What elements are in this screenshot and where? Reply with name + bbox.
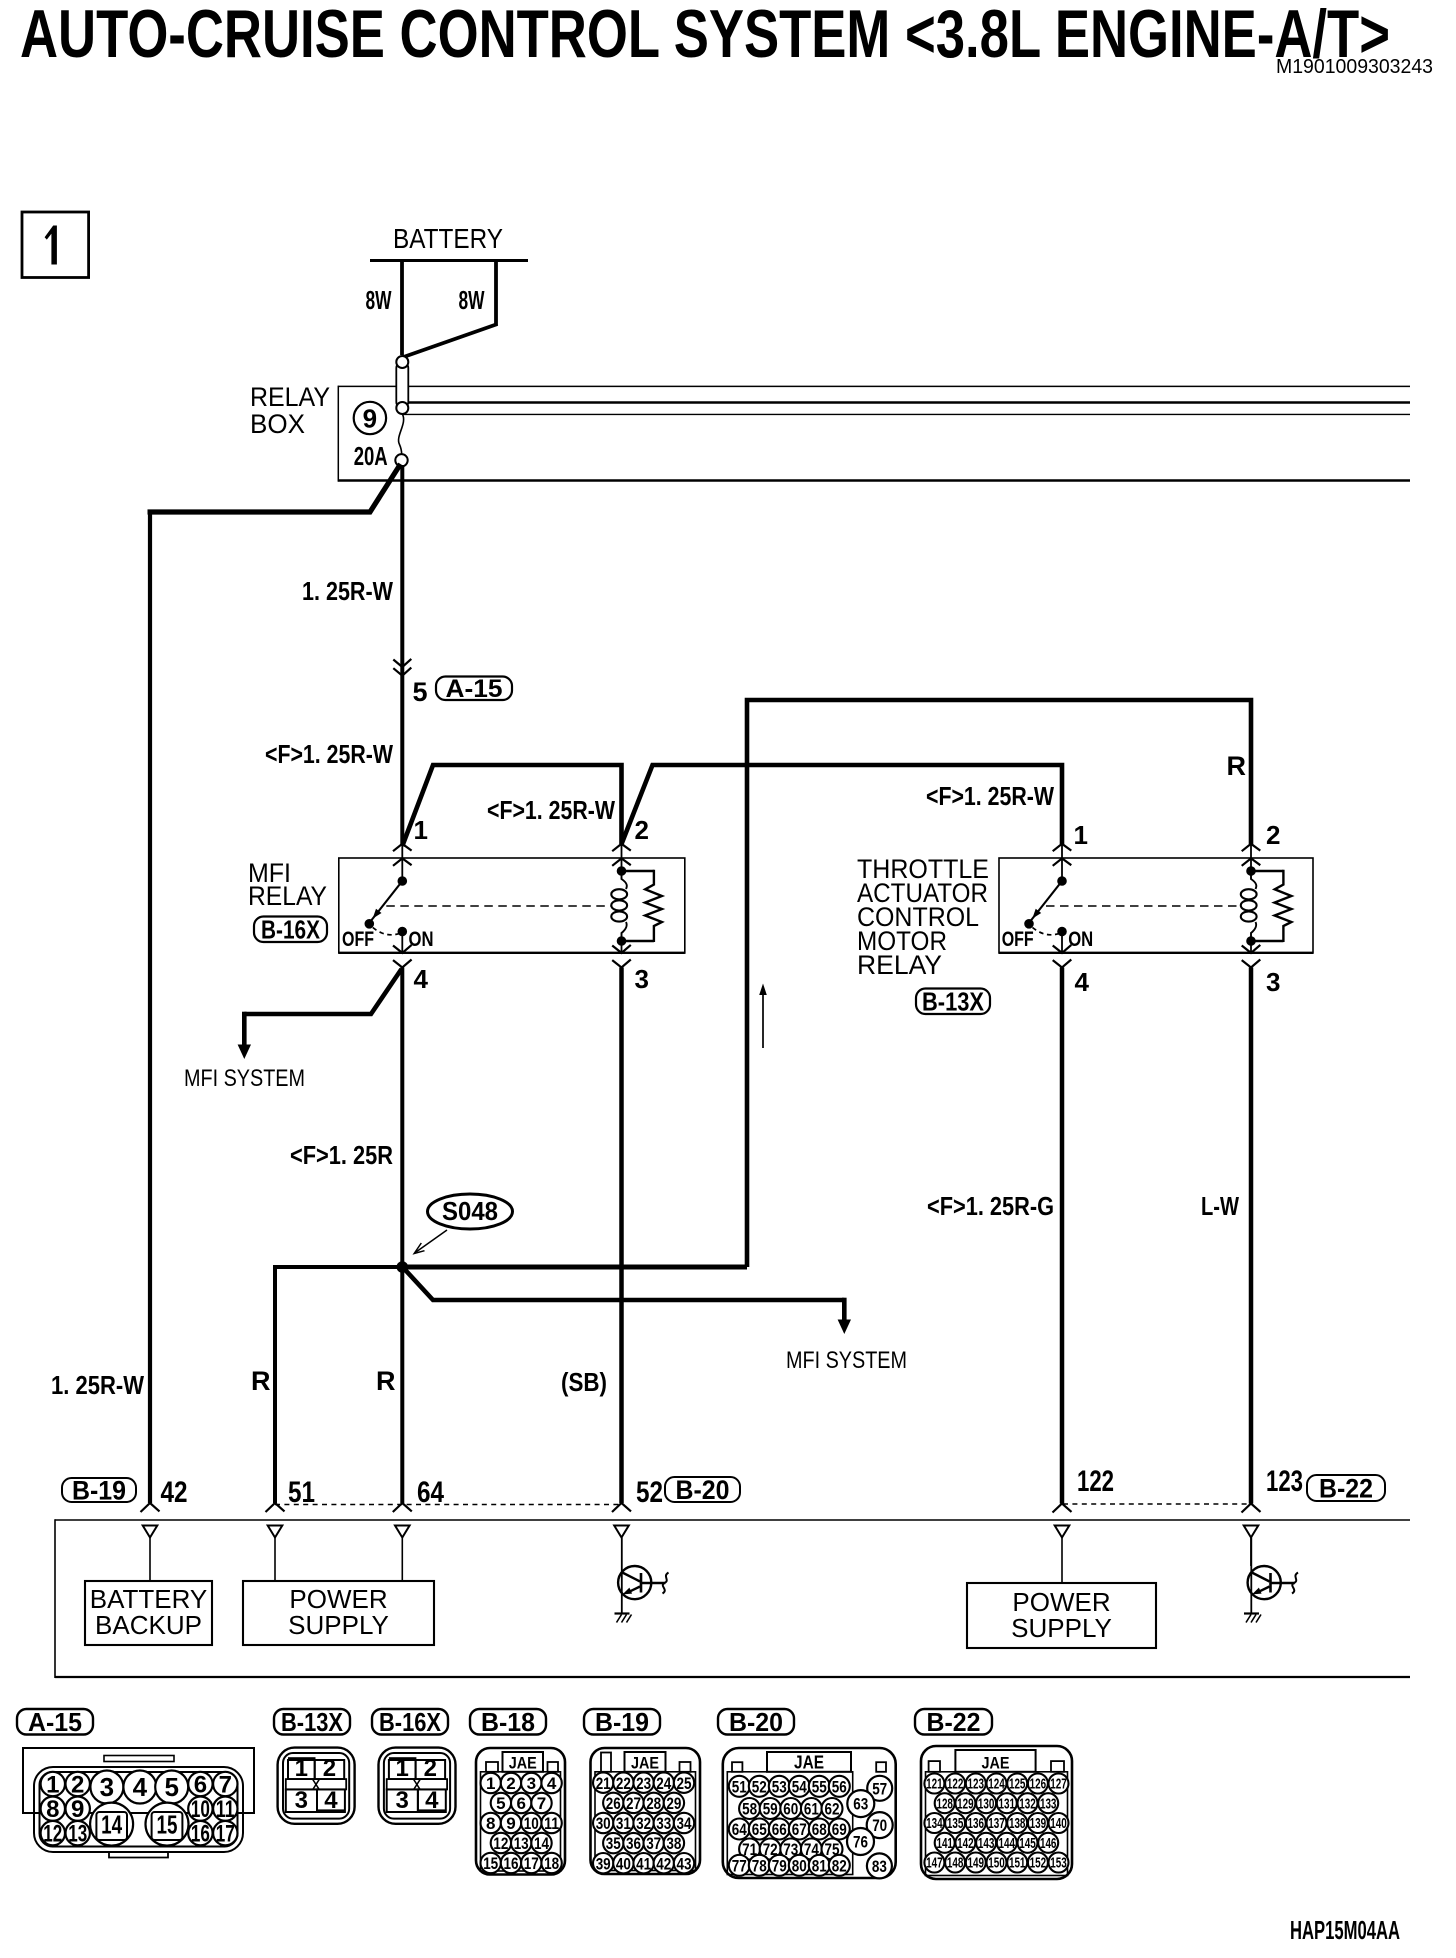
svg-text:4: 4 (425, 1787, 439, 1814)
svg-text:14: 14 (101, 1809, 122, 1839)
svg-text:B-20: B-20 (729, 1707, 783, 1737)
svg-text:R: R (1227, 751, 1247, 781)
svg-text:26: 26 (606, 1794, 621, 1813)
svg-text:127: 127 (1050, 1777, 1067, 1793)
svg-text:4: 4 (414, 964, 429, 994)
svg-text:3: 3 (396, 1787, 409, 1814)
svg-text:56: 56 (832, 1777, 847, 1796)
svg-text:3: 3 (295, 1787, 308, 1814)
svg-text:137: 137 (988, 1816, 1005, 1832)
svg-text:2: 2 (424, 1755, 437, 1782)
svg-text:4: 4 (1075, 967, 1090, 997)
svg-text:BACKUP: BACKUP (95, 1610, 202, 1640)
svg-text:54: 54 (792, 1777, 807, 1796)
svg-text:20A: 20A (354, 441, 388, 471)
svg-text:(SB): (SB) (561, 1367, 607, 1397)
svg-text:23: 23 (636, 1774, 651, 1793)
svg-text:150: 150 (988, 1856, 1005, 1872)
svg-text:79: 79 (772, 1856, 787, 1875)
svg-text:S048: S048 (442, 1196, 498, 1226)
svg-text:32: 32 (636, 1814, 651, 1833)
svg-text:139: 139 (1030, 1816, 1047, 1832)
svg-text:2: 2 (635, 815, 649, 845)
svg-text:OFF: OFF (1002, 928, 1034, 951)
svg-text:SUPPLY: SUPPLY (1011, 1613, 1112, 1643)
svg-text:5: 5 (496, 1794, 505, 1813)
svg-text:R: R (376, 1366, 396, 1396)
svg-text:30: 30 (596, 1814, 611, 1833)
svg-text:3: 3 (527, 1774, 536, 1793)
svg-text:AUTO-CRUISE CONTROL SYSTEM <3.: AUTO-CRUISE CONTROL SYSTEM <3.8L ENGINE-… (20, 0, 1390, 72)
svg-text:6: 6 (194, 1772, 207, 1799)
svg-text:51: 51 (288, 1476, 315, 1509)
svg-text:125: 125 (1009, 1777, 1026, 1793)
svg-text:2: 2 (506, 1774, 515, 1793)
svg-text:129: 129 (957, 1796, 974, 1812)
svg-text:ON: ON (409, 928, 434, 951)
svg-text:1: 1 (414, 815, 428, 845)
svg-text:40: 40 (616, 1854, 631, 1873)
svg-text:33: 33 (656, 1814, 671, 1833)
svg-text:51: 51 (732, 1777, 747, 1796)
svg-text:JAE: JAE (631, 1754, 659, 1773)
svg-text:BOX: BOX (250, 409, 305, 439)
svg-text:153: 153 (1050, 1856, 1067, 1872)
svg-text:15: 15 (157, 1809, 178, 1839)
svg-text:31: 31 (616, 1814, 631, 1833)
svg-text:8W: 8W (366, 285, 392, 315)
svg-text:<F>1. 25R-W: <F>1. 25R-W (265, 739, 393, 769)
svg-text:25: 25 (677, 1774, 692, 1793)
svg-text:55: 55 (812, 1777, 827, 1796)
svg-text:11: 11 (544, 1814, 559, 1833)
svg-text:123: 123 (1266, 1465, 1303, 1498)
svg-text:68: 68 (812, 1820, 827, 1839)
svg-text:81: 81 (812, 1856, 827, 1875)
svg-text:L-W: L-W (1201, 1191, 1239, 1221)
svg-text:1: 1 (1074, 820, 1088, 850)
svg-text:15: 15 (483, 1854, 498, 1873)
svg-text:64: 64 (732, 1820, 747, 1839)
svg-text:136: 136 (968, 1816, 985, 1832)
svg-text:28: 28 (646, 1794, 661, 1813)
svg-text:B-13X: B-13X (922, 986, 985, 1016)
svg-text:62: 62 (825, 1800, 840, 1819)
svg-text:3: 3 (635, 964, 649, 994)
svg-text:146: 146 (1040, 1836, 1057, 1852)
svg-text:126: 126 (1030, 1777, 1047, 1793)
svg-text:52: 52 (752, 1777, 767, 1796)
svg-text:34: 34 (677, 1814, 692, 1833)
svg-text:B-16X: B-16X (261, 914, 321, 944)
svg-text:17: 17 (216, 1821, 235, 1848)
svg-text:134: 134 (926, 1816, 943, 1832)
svg-text:63: 63 (853, 1795, 868, 1814)
svg-text:16: 16 (504, 1854, 519, 1873)
svg-text:121: 121 (926, 1777, 943, 1793)
svg-text:43: 43 (677, 1854, 692, 1873)
svg-text:<F>1. 25R-W: <F>1. 25R-W (926, 781, 1054, 811)
svg-text:M1901009303243: M1901009303243 (1276, 56, 1433, 78)
svg-text:42: 42 (161, 1476, 188, 1509)
svg-text:151: 151 (1009, 1856, 1026, 1872)
svg-text:18: 18 (544, 1854, 559, 1873)
svg-text:9: 9 (506, 1814, 515, 1833)
svg-text:JAE: JAE (794, 1753, 824, 1773)
svg-text:13: 13 (514, 1834, 529, 1853)
svg-text:B-20: B-20 (676, 1475, 730, 1505)
svg-text:83: 83 (872, 1857, 887, 1876)
svg-text:80: 80 (792, 1856, 807, 1875)
svg-text:16: 16 (191, 1821, 210, 1848)
svg-text:JAE: JAE (982, 1754, 1010, 1773)
svg-text:149: 149 (968, 1856, 985, 1872)
svg-text:1. 25R-W: 1. 25R-W (302, 576, 393, 606)
svg-text:67: 67 (792, 1820, 807, 1839)
svg-text:2: 2 (1266, 820, 1280, 850)
svg-text:35: 35 (606, 1834, 621, 1853)
svg-text:132: 132 (1019, 1796, 1036, 1812)
svg-text:148: 148 (947, 1856, 964, 1872)
svg-text:1. 25R-W: 1. 25R-W (51, 1370, 144, 1400)
svg-text:122: 122 (1077, 1465, 1114, 1498)
svg-text:14: 14 (534, 1834, 549, 1853)
svg-text:37: 37 (646, 1834, 661, 1853)
svg-text:17: 17 (524, 1854, 539, 1873)
svg-text:76: 76 (853, 1833, 868, 1852)
svg-text:133: 133 (1040, 1796, 1057, 1812)
svg-text:128: 128 (936, 1796, 953, 1812)
svg-text:B-18: B-18 (481, 1707, 535, 1737)
svg-text:82: 82 (832, 1856, 847, 1875)
svg-text:B-13X: B-13X (281, 1707, 344, 1737)
svg-text:38: 38 (666, 1834, 681, 1853)
svg-text:JAE: JAE (509, 1754, 537, 1773)
svg-text:60: 60 (783, 1800, 798, 1819)
svg-text:MFI SYSTEM: MFI SYSTEM (184, 1065, 305, 1092)
svg-text:21: 21 (596, 1774, 611, 1793)
svg-text:7: 7 (219, 1772, 232, 1799)
svg-text:135: 135 (947, 1816, 964, 1832)
svg-text:131: 131 (999, 1796, 1016, 1812)
svg-text:B-19: B-19 (595, 1707, 649, 1737)
svg-text:<F>1. 25R: <F>1. 25R (290, 1140, 393, 1170)
svg-text:11: 11 (216, 1796, 235, 1823)
svg-text:65: 65 (752, 1820, 767, 1839)
svg-text:B-16X: B-16X (379, 1707, 442, 1737)
svg-text:152: 152 (1030, 1856, 1047, 1872)
svg-text:8: 8 (486, 1814, 495, 1833)
svg-text:3: 3 (1266, 967, 1280, 997)
svg-text:R: R (251, 1366, 271, 1396)
svg-text:64: 64 (417, 1476, 444, 1509)
svg-text:9: 9 (71, 1796, 84, 1823)
svg-text:2: 2 (323, 1755, 336, 1782)
svg-text:39: 39 (596, 1854, 611, 1873)
svg-text:A-15: A-15 (446, 675, 503, 703)
svg-text:142: 142 (957, 1836, 974, 1852)
svg-text:69: 69 (832, 1820, 847, 1839)
svg-text:1: 1 (295, 1755, 308, 1782)
svg-text:52: 52 (636, 1476, 663, 1509)
svg-text:36: 36 (626, 1834, 641, 1853)
svg-text:27: 27 (626, 1794, 641, 1813)
svg-text:1: 1 (486, 1774, 495, 1793)
svg-text:144: 144 (999, 1836, 1016, 1852)
svg-text:10: 10 (524, 1814, 539, 1833)
svg-text:RELAY: RELAY (857, 950, 942, 980)
svg-text:1: 1 (46, 1772, 59, 1799)
svg-text:HAP15M04AA: HAP15M04AA (1290, 1915, 1400, 1945)
svg-text:57: 57 (872, 1779, 887, 1798)
svg-text:MFI SYSTEM: MFI SYSTEM (786, 1347, 907, 1374)
svg-text:12: 12 (43, 1821, 62, 1848)
svg-text:7: 7 (537, 1794, 546, 1813)
svg-text:8W: 8W (459, 285, 485, 315)
svg-text:RELAY: RELAY (250, 382, 330, 412)
svg-text:RELAY: RELAY (248, 881, 327, 911)
svg-text:3: 3 (100, 1772, 114, 1802)
svg-text:130: 130 (978, 1796, 995, 1812)
svg-text:77: 77 (732, 1856, 747, 1875)
svg-text:<F>1. 25R-G: <F>1. 25R-G (927, 1191, 1054, 1221)
svg-text:138: 138 (1009, 1816, 1026, 1832)
svg-text:13: 13 (68, 1821, 87, 1848)
svg-text:B-22: B-22 (1319, 1473, 1373, 1503)
svg-text:42: 42 (656, 1854, 671, 1873)
svg-text:ON: ON (1068, 928, 1093, 951)
svg-text:2: 2 (71, 1772, 84, 1799)
svg-text:4: 4 (547, 1774, 557, 1793)
svg-text:4: 4 (324, 1787, 338, 1814)
svg-text:6: 6 (516, 1794, 525, 1813)
svg-text:5: 5 (164, 1772, 178, 1802)
svg-text:9: 9 (363, 404, 377, 434)
svg-text:12: 12 (493, 1834, 508, 1853)
svg-text:B-19: B-19 (72, 1475, 126, 1505)
svg-text:4: 4 (133, 1772, 148, 1802)
svg-text:58: 58 (742, 1800, 757, 1819)
svg-text:124: 124 (988, 1777, 1005, 1793)
svg-text:143: 143 (978, 1836, 995, 1852)
svg-text:141: 141 (936, 1836, 953, 1852)
svg-text:8: 8 (46, 1796, 59, 1823)
svg-text:OFF: OFF (342, 928, 374, 951)
svg-text:B-22: B-22 (927, 1707, 981, 1737)
svg-text:123: 123 (968, 1777, 985, 1793)
svg-text:53: 53 (772, 1777, 787, 1796)
svg-text:66: 66 (772, 1820, 787, 1839)
svg-text:24: 24 (656, 1774, 671, 1793)
svg-text:SUPPLY: SUPPLY (288, 1610, 389, 1640)
svg-text:70: 70 (872, 1816, 887, 1835)
svg-text:5: 5 (413, 677, 428, 707)
svg-text:122: 122 (947, 1777, 964, 1793)
svg-text:61: 61 (804, 1800, 819, 1819)
svg-text:22: 22 (616, 1774, 631, 1793)
svg-text:29: 29 (666, 1794, 681, 1813)
svg-text:<F>1. 25R-W: <F>1. 25R-W (487, 795, 615, 825)
svg-text:1: 1 (396, 1755, 409, 1782)
svg-text:A-15: A-15 (28, 1707, 82, 1737)
svg-text:145: 145 (1019, 1836, 1036, 1852)
svg-text:10: 10 (191, 1796, 210, 1823)
svg-text:59: 59 (763, 1800, 778, 1819)
svg-text:BATTERY: BATTERY (393, 223, 503, 254)
svg-text:147: 147 (926, 1856, 943, 1872)
svg-text:78: 78 (752, 1856, 767, 1875)
svg-text:140: 140 (1050, 1816, 1067, 1832)
svg-text:41: 41 (636, 1854, 651, 1873)
